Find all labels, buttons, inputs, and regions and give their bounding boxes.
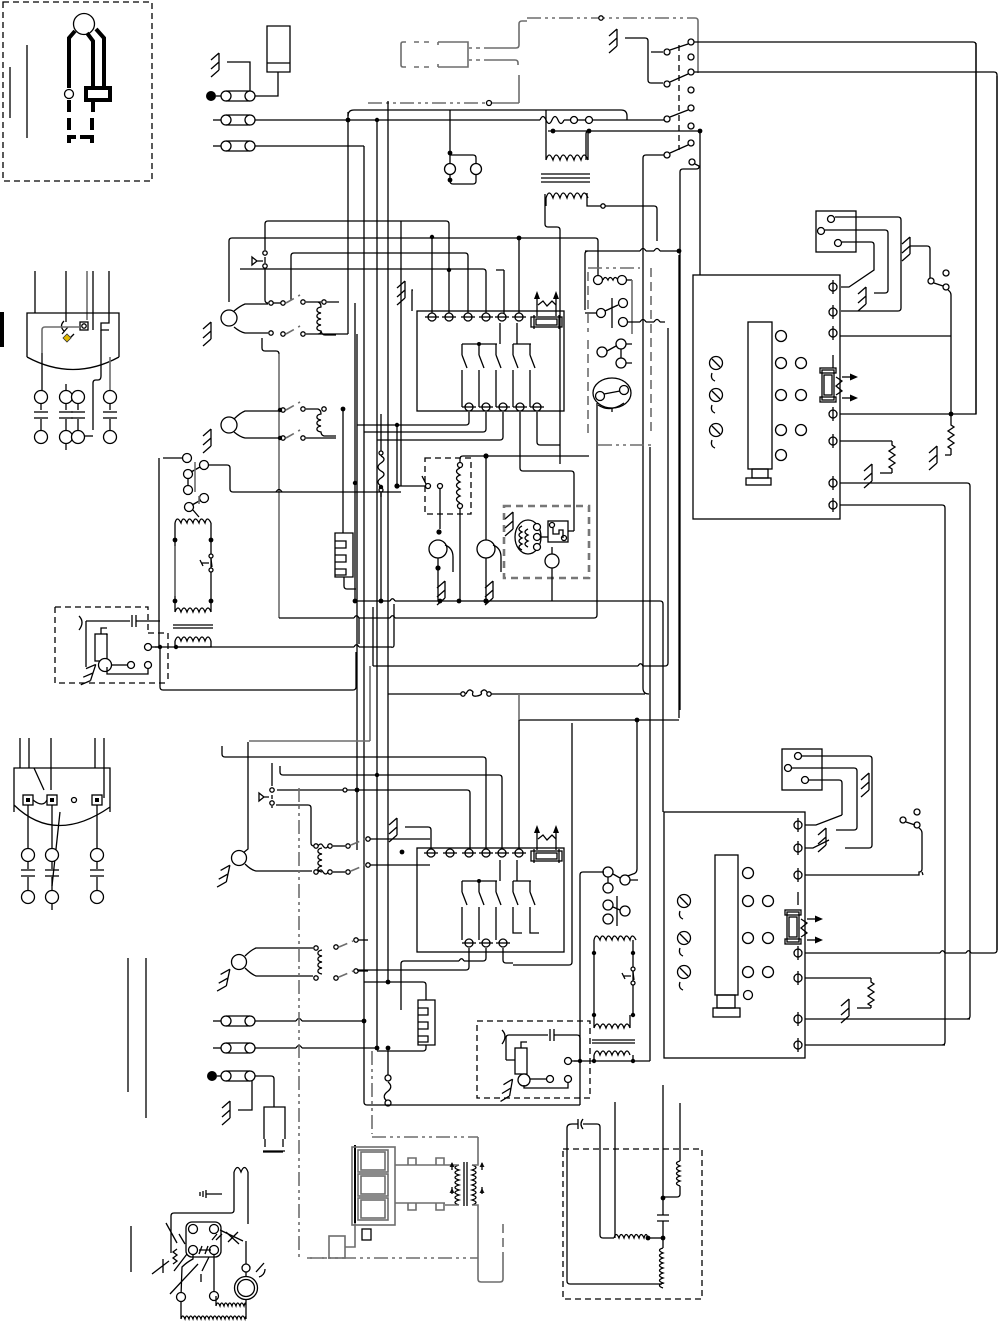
wire flex jog xyxy=(384,1051,391,1102)
timer coil lead xyxy=(627,279,632,281)
compressor 2 shell xyxy=(14,768,110,826)
plug ring xyxy=(65,90,74,99)
cluster1 wire a2 xyxy=(306,301,339,303)
bar2 pedestal xyxy=(717,995,735,1008)
wire rail 618 xyxy=(279,403,597,618)
junction xyxy=(375,118,379,122)
lead diamond xyxy=(601,204,605,208)
wire cap feed xyxy=(86,620,130,622)
timer motor lead gray xyxy=(631,280,633,334)
board1 fuse squiggle xyxy=(836,377,842,395)
overload jag xyxy=(173,1249,177,1264)
board2 outline xyxy=(664,812,805,1058)
RY2 dots xyxy=(592,951,635,1017)
wire K1 out 1 xyxy=(357,412,469,425)
motor brush arc xyxy=(259,1269,265,1277)
wire TM top tie xyxy=(548,130,590,132)
K1 pole rail A xyxy=(462,323,500,344)
junction xyxy=(278,436,282,440)
wire timer motor drop xyxy=(625,720,637,877)
ground G11 xyxy=(902,237,910,261)
wire heater out xyxy=(377,1045,426,1051)
contactor K2 outline xyxy=(417,848,564,952)
cluster3 wire b out xyxy=(370,864,430,866)
RY1 gray core bar xyxy=(174,546,176,596)
wire TM right lead xyxy=(586,131,700,275)
wire t333 xyxy=(840,335,951,337)
connector block CN3 xyxy=(782,749,822,790)
resistor R3 xyxy=(868,978,874,1008)
K1 pole rail B xyxy=(513,323,531,344)
cluster3 coil xyxy=(318,848,322,872)
jog 953a xyxy=(940,951,971,953)
aux coil circles xyxy=(458,463,463,509)
K1 top terminals xyxy=(425,313,526,321)
RB pins xyxy=(189,1225,219,1255)
arrowhead xyxy=(850,395,858,402)
wire v381 lower xyxy=(380,493,382,601)
jog 322 xyxy=(640,320,660,323)
K1 fuse squiggle xyxy=(538,301,556,306)
cluster2 dashed blade a xyxy=(286,402,300,410)
interlock2 blade xyxy=(906,822,915,825)
plug lead right xyxy=(96,29,104,86)
cluster1 dashed blade a xyxy=(286,295,300,303)
wire bus b4 xyxy=(240,269,486,314)
compressor 1 gray right lead xyxy=(109,357,111,391)
wire start to bus xyxy=(155,604,394,647)
ballast dashes xyxy=(263,1139,285,1151)
wire K2 out 2 xyxy=(401,948,486,1010)
CN2 pins xyxy=(818,216,842,247)
K1 pole 5 xyxy=(530,344,535,407)
wire relay-PTC xyxy=(541,536,548,538)
cluster2 contacts b xyxy=(281,436,305,440)
gray border h1258 xyxy=(310,1257,478,1259)
bar base xyxy=(746,478,771,485)
wire secondary rail xyxy=(574,1060,650,1062)
SD2 lead xyxy=(506,1042,527,1060)
timer contact out xyxy=(619,318,666,327)
wire link riser B xyxy=(649,447,651,1061)
capacitor C1 xyxy=(132,615,136,627)
blade to terminal2 xyxy=(805,815,842,825)
TM secondary leads xyxy=(546,193,657,241)
run coil xyxy=(614,1235,648,1239)
gray border v372 xyxy=(371,1051,373,1134)
junction xyxy=(158,645,162,649)
ground G16 xyxy=(861,773,869,797)
transformer T2 primary xyxy=(594,1015,630,1028)
cluster2 wire b2 xyxy=(306,437,336,439)
ground G17 xyxy=(818,828,826,852)
junction xyxy=(949,412,954,417)
internal start mark xyxy=(67,334,74,341)
wire CN3 a xyxy=(802,756,872,848)
RY2 inner switch xyxy=(622,972,634,980)
wire bus v348 xyxy=(347,112,349,334)
wire link left riser xyxy=(372,607,374,666)
wire fm2 feed xyxy=(485,456,487,540)
jog 961 xyxy=(459,959,464,961)
cluster3 contacts b xyxy=(314,863,370,874)
jog 601 xyxy=(390,599,395,601)
stray vertical a xyxy=(127,958,129,1092)
ground G6 xyxy=(437,581,445,605)
thermostat bulb T4 xyxy=(232,955,247,970)
K1 pole 2 xyxy=(479,344,484,407)
cluster1 wire a xyxy=(234,304,268,311)
timer switch xyxy=(597,298,628,328)
wire fm2 down xyxy=(485,558,487,601)
wire t483 xyxy=(840,483,970,1019)
RY2 inner contacts xyxy=(631,967,635,985)
T2 core xyxy=(592,1040,635,1043)
wire bulb T3 feed xyxy=(243,742,248,853)
wire rail drop xyxy=(358,618,360,644)
DS2 plunger xyxy=(259,793,269,801)
CN3 pins xyxy=(785,753,809,784)
SD top lead xyxy=(101,628,107,635)
ground G20 xyxy=(501,1078,513,1103)
wire l-feed 790 xyxy=(277,790,470,849)
fuse link F5 xyxy=(213,1043,255,1053)
wire rail 601 xyxy=(355,601,663,812)
K1 bottom terminals xyxy=(462,403,544,411)
door switch contacts xyxy=(263,251,267,268)
wire lower switch feed xyxy=(580,872,604,1105)
T1 core xyxy=(173,625,213,628)
key switch lines xyxy=(607,344,632,363)
jog 618a xyxy=(354,616,395,618)
wire fm2 branch xyxy=(493,545,501,572)
ground G5 xyxy=(81,662,96,687)
jog F5 xyxy=(296,1046,302,1049)
terminal sq 2 xyxy=(47,795,57,805)
relay RY2 sides xyxy=(594,940,633,1015)
dropper resistor block R0 xyxy=(267,26,290,72)
wire fan feed xyxy=(439,489,441,529)
door switch plunger xyxy=(252,257,263,265)
lower key lines xyxy=(608,874,638,883)
wire K2 out 1 xyxy=(357,948,469,970)
wire fan to bus xyxy=(437,568,439,601)
phase arc 2 xyxy=(502,1030,505,1044)
wire inner v615 xyxy=(614,1102,616,1238)
wire gray link drop xyxy=(369,666,371,741)
wire CN3 c xyxy=(809,780,842,815)
K2 pole rail B xyxy=(513,860,531,881)
T2 leads xyxy=(594,1055,633,1061)
K2 pole 3 xyxy=(496,881,501,940)
junction xyxy=(448,178,453,183)
right notch xyxy=(101,313,109,330)
arrowhead xyxy=(815,916,823,923)
junction xyxy=(448,151,453,156)
gray border h1137 xyxy=(372,1136,478,1138)
RY1 dots xyxy=(173,538,214,604)
connector circles on L-line xyxy=(564,117,664,124)
relay ellipse xyxy=(515,520,541,554)
choke bump a xyxy=(408,1158,444,1165)
HV transformer secondary xyxy=(472,1165,476,1205)
defrost heater H2 xyxy=(335,533,353,577)
cluster2 coil xyxy=(306,409,336,436)
wire bus b3 xyxy=(291,253,468,314)
K2 pole rail A xyxy=(462,860,500,881)
wire comb feed xyxy=(342,409,344,533)
interlock switch xyxy=(928,270,949,290)
leader lines 2 xyxy=(174,1234,222,1282)
wire t1019 xyxy=(805,1018,970,1020)
K2 bottom terminals xyxy=(462,939,510,947)
fuse link F6 xyxy=(217,1071,255,1081)
jog 251a xyxy=(640,249,660,252)
junction xyxy=(483,453,488,458)
HVT arrows xyxy=(452,1163,482,1194)
junction xyxy=(346,118,351,123)
wire aux coil down xyxy=(459,509,461,601)
pilot circle xyxy=(72,798,77,803)
fuse link F1 xyxy=(216,91,255,101)
start contacts 2 xyxy=(524,1076,572,1089)
board2 edge terminals xyxy=(794,818,802,1052)
cluster1 contacts a xyxy=(269,300,326,305)
wire G15 xyxy=(405,827,431,849)
module cell 3 xyxy=(358,1198,388,1220)
cluster2 contacts a xyxy=(281,407,326,412)
K2 fuse arrows xyxy=(537,832,556,850)
supply dot L2 xyxy=(207,1071,217,1081)
wire RB down right xyxy=(213,1255,215,1291)
breaker squiggle on L-line xyxy=(540,117,564,124)
relay RY1 sides xyxy=(175,523,211,601)
relay pins xyxy=(534,524,541,551)
wire bus v401 xyxy=(400,221,402,486)
plug body P1 xyxy=(74,14,95,35)
connector housing dashes xyxy=(414,42,429,67)
cluster4 contacts a xyxy=(314,938,358,950)
cap stack 2b xyxy=(45,849,59,911)
wire fan down xyxy=(437,558,439,568)
ground G10 xyxy=(864,464,872,488)
wire top bus A xyxy=(348,110,627,120)
relay box RB xyxy=(186,1222,221,1257)
timer dashdot border top xyxy=(588,267,640,269)
wire 251 corner xyxy=(585,251,588,254)
cluster4 contacts b xyxy=(314,969,358,980)
timer bottom dashdot xyxy=(598,444,651,446)
plug lead left xyxy=(69,31,75,88)
pump coil leads xyxy=(171,1172,248,1253)
relay contact out 2 xyxy=(565,1058,579,1065)
bar2 base xyxy=(713,1008,740,1017)
junction xyxy=(661,1196,666,1201)
K2 top terminals xyxy=(424,849,526,857)
fan motor FM2 xyxy=(477,540,495,558)
comp2 pin lines xyxy=(28,805,97,848)
wire l-feed 805 xyxy=(276,805,314,846)
branch diamond xyxy=(487,101,492,106)
junction xyxy=(436,529,441,534)
ground G14 xyxy=(217,968,230,993)
K2 pole 4 xyxy=(513,881,522,933)
wire ground to fuse xyxy=(227,62,250,91)
fuse2 arrow top xyxy=(807,918,817,920)
cam ellipse xyxy=(593,378,631,408)
start relay dashed box xyxy=(504,506,589,578)
cluster4 wire a feed xyxy=(245,948,313,956)
jog 647 xyxy=(354,645,359,647)
compressor 2 internal line xyxy=(34,768,104,798)
ground G2 xyxy=(397,281,405,305)
contact circle br xyxy=(210,1292,219,1301)
resistor R2 xyxy=(889,441,895,473)
wire to right edge top xyxy=(694,42,976,414)
defrost sw circle b xyxy=(184,486,209,512)
timer left edge xyxy=(584,254,586,310)
cam arc mark xyxy=(598,403,624,409)
arrowhead xyxy=(815,937,823,944)
defrost sw circle a xyxy=(183,454,209,479)
junction xyxy=(646,1236,651,1241)
RY1 inner switch xyxy=(200,559,212,567)
dashed compartment outline xyxy=(563,1149,702,1299)
junction xyxy=(661,1236,666,1241)
board1 indicator bar xyxy=(748,322,772,469)
K2 fuse body xyxy=(531,849,562,863)
cap C3 xyxy=(657,1198,669,1238)
gray harness corner xyxy=(695,18,698,73)
relay contact out xyxy=(145,644,159,651)
fan motor FM1 xyxy=(429,540,447,558)
transformer TM primary xyxy=(546,110,588,160)
cluster4 wire a out xyxy=(358,939,368,941)
junction xyxy=(635,718,640,723)
wire arc down 2 xyxy=(506,1035,509,1060)
blade S1c xyxy=(670,110,688,117)
junction xyxy=(698,129,703,134)
wire defrost run xyxy=(209,465,401,492)
relay RY2 coil top xyxy=(594,936,636,940)
edge artifact xyxy=(0,312,4,347)
wire Y-net vertical xyxy=(678,255,680,718)
junction dots rail xyxy=(353,599,462,604)
ground G15 xyxy=(389,818,397,842)
RB contact marks xyxy=(199,1234,217,1254)
capacitor C2 xyxy=(550,1029,554,1041)
PTC pins xyxy=(550,523,567,541)
screw S1 xyxy=(710,357,723,382)
resistor end diamonds xyxy=(379,451,383,492)
yellow mark xyxy=(63,334,71,342)
board2 indicator bar xyxy=(715,855,738,995)
junction xyxy=(375,773,379,777)
compressor 1 gray lead xyxy=(86,271,88,320)
DS2 contacts xyxy=(270,788,274,805)
arrowhead xyxy=(850,374,858,381)
transformer T1 primary xyxy=(175,601,211,612)
diag line xyxy=(52,812,60,886)
ground G12 xyxy=(858,287,866,311)
wire K1 out 5 xyxy=(537,412,560,445)
defrost blade a xyxy=(163,458,200,486)
wire bus v364 xyxy=(363,146,365,1102)
jog 492 xyxy=(276,490,282,493)
ground G19 xyxy=(222,1101,230,1125)
wire v381 upper xyxy=(380,414,382,440)
contact circle bl xyxy=(177,1293,186,1302)
interlock blade xyxy=(934,283,943,286)
defrost actuator bar 2 xyxy=(198,496,200,504)
gray pin wire b xyxy=(489,60,518,65)
pilot lamp feed xyxy=(449,110,451,163)
cam dashes gray xyxy=(587,340,589,436)
connector block CN2 xyxy=(816,211,856,252)
lower key switch xyxy=(603,867,630,893)
heater coil bottom xyxy=(181,1302,246,1319)
junction xyxy=(362,1019,367,1024)
key switch circles xyxy=(597,339,626,368)
wire CN3 b xyxy=(792,768,857,830)
terminal sq 1 xyxy=(23,795,33,805)
timer dashdot left xyxy=(587,272,589,332)
cap stack 1d xyxy=(103,391,117,444)
wire low rail 1105 xyxy=(364,1102,580,1105)
bar pedestal xyxy=(752,469,768,478)
junction xyxy=(379,485,383,489)
junction xyxy=(395,423,399,427)
wire fan branch xyxy=(445,545,453,572)
K1 fuse body xyxy=(531,315,562,329)
overload protector xyxy=(62,321,69,334)
wire aux feed down xyxy=(396,425,398,486)
rotor hook xyxy=(680,164,699,710)
wire K1 out 2 xyxy=(364,412,486,432)
gray branch harness xyxy=(368,102,486,104)
gray drop vertical xyxy=(278,354,280,618)
junction xyxy=(386,980,391,985)
wire K2 out3 riser xyxy=(513,723,572,965)
start coil vertical xyxy=(660,1238,664,1288)
fuse link F4 xyxy=(213,1016,255,1026)
leader lines xyxy=(152,1223,239,1294)
arrow heads xyxy=(534,291,559,299)
wire CSIR out xyxy=(160,649,356,690)
wire v355 xyxy=(354,303,356,601)
fuse link F3 xyxy=(213,141,255,151)
cluster4 dashed blade a xyxy=(339,941,353,947)
junction xyxy=(394,483,399,488)
wire motor feed xyxy=(245,1241,247,1277)
wire K2 riser 519 xyxy=(518,720,520,849)
junction xyxy=(551,129,556,134)
wire inner v663 xyxy=(662,1085,664,1198)
wire R2 to ground xyxy=(880,472,892,474)
ground G-bank xyxy=(609,29,617,53)
label line xyxy=(263,1151,283,1153)
wire F1 to component xyxy=(255,72,278,96)
ground G9 xyxy=(929,446,937,470)
wire link 720 xyxy=(519,719,679,721)
start device SD xyxy=(95,634,107,661)
contactor K1 outline xyxy=(417,311,564,411)
cap coupler xyxy=(572,1119,590,1129)
screw S6 xyxy=(678,966,691,991)
plug coil box xyxy=(86,88,110,100)
contact points column xyxy=(664,39,695,165)
wire F5 out xyxy=(255,1047,377,1049)
